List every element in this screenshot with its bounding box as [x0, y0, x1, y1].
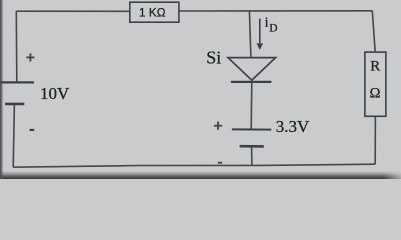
battery V2 plus sign — [214, 122, 222, 130]
svg-text:3.3V: 3.3V — [276, 117, 310, 136]
diode D1 triangle (anode) — [228, 58, 276, 81]
svg-text:R: R — [370, 59, 380, 75]
left scan shadow — [0, 0, 4, 179]
wire top-left segment — [16, 10, 130, 12]
svg-text:D: D — [269, 22, 277, 34]
paper background — [0, 0, 401, 179]
current arrow iD — [257, 19, 264, 50]
svg-text:Ω: Ω — [370, 86, 381, 102]
battery V2 minus sign — [218, 162, 222, 164]
wire diode cathode to 3.3V battery — [250, 82, 253, 130]
diode D1 cathode bar — [231, 81, 272, 83]
resistor R1 1 KΩ box — [130, 2, 179, 22]
wire middle upper (diode anode) — [249, 11, 251, 57]
resistor R2 load box — [365, 52, 386, 116]
wire top-right segment — [179, 10, 373, 12]
battery V1 plus sign — [26, 53, 34, 61]
svg-text:i: i — [265, 16, 269, 31]
svg-text:1 KΩ: 1 KΩ — [139, 6, 166, 20]
wire left lower — [13, 104, 14, 167]
wire left upper (10V + terminal) — [15, 11, 18, 82]
battery V1 10V positive plate — [1, 81, 34, 83]
wire right upper — [372, 11, 375, 52]
battery V1 10V negative plate — [5, 103, 24, 106]
wire right lower — [374, 116, 376, 164]
bottom scan shadow — [0, 171, 401, 179]
battery V2 3.3V positive plate — [232, 128, 271, 130]
svg-text:10V: 10V — [40, 84, 70, 103]
battery V2 3.3V negative plate — [240, 145, 264, 148]
battery V1 minus sign — [30, 129, 35, 131]
wire 3.3V battery to bottom — [251, 146, 253, 164]
svg-text:Si: Si — [206, 47, 221, 67]
wire bottom — [13, 164, 375, 167]
